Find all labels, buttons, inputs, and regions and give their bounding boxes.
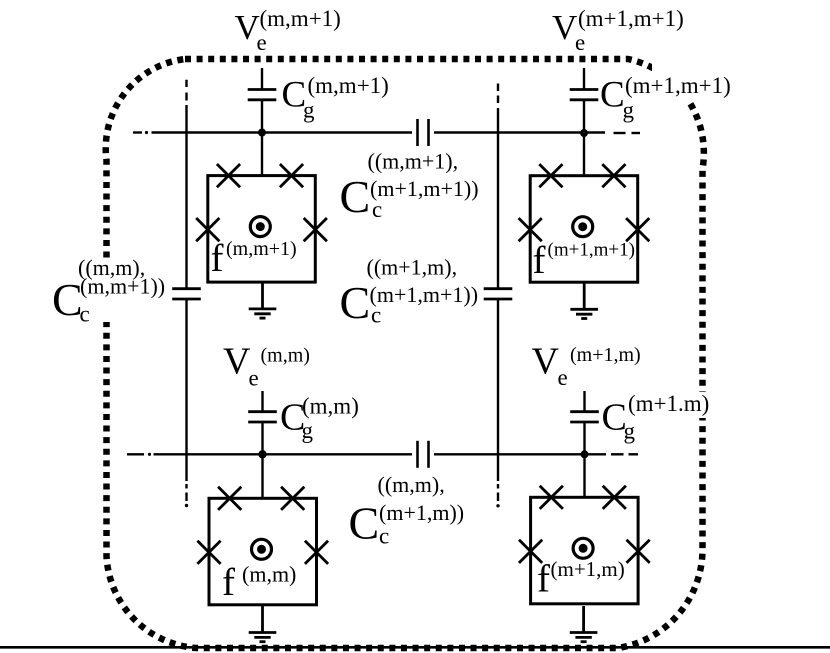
svg-text:g: g [303, 98, 315, 123]
svg-text:(m,m+1)): (m,m+1)) [80, 274, 165, 299]
svg-text:f: f [211, 237, 224, 280]
svg-text:(m+1,m)): (m+1,m)) [379, 500, 464, 525]
svg-text:V: V [552, 8, 577, 47]
svg-text:C: C [600, 75, 625, 116]
svg-text:f: f [222, 561, 235, 604]
svg-text:(m+1,m+1): (m+1,m+1) [625, 73, 731, 98]
svg-text:(m+1,m+1)): (m+1,m+1)) [370, 282, 479, 307]
svg-text:e: e [558, 365, 568, 390]
svg-text:(m+1,m+1)): (m+1,m+1)) [370, 176, 479, 201]
svg-text:(m+1.m): (m+1.m) [628, 391, 709, 416]
svg-text:V: V [223, 341, 251, 383]
svg-text:f: f [533, 239, 546, 282]
svg-text:(m+1,m+1): (m+1,m+1) [578, 6, 684, 31]
svg-text:(m+1,m): (m+1,m) [551, 557, 625, 581]
svg-text:(m,m+1): (m,m+1) [260, 6, 341, 31]
svg-text:((m+1,m),: ((m+1,m), [367, 255, 458, 280]
svg-text:g: g [624, 419, 636, 444]
svg-text:e: e [249, 366, 259, 391]
svg-text:C: C [340, 277, 371, 328]
svg-text:(m,m): (m,m) [242, 562, 296, 587]
svg-text:(m+1,m): (m+1,m) [570, 344, 641, 366]
svg-text:c: c [379, 524, 389, 549]
svg-text:(m,m+1): (m,m+1) [308, 73, 389, 98]
svg-text:e: e [257, 30, 267, 55]
svg-text:C: C [349, 498, 380, 549]
svg-text:(m,m): (m,m) [302, 394, 359, 419]
svg-text:g: g [623, 98, 635, 123]
svg-text:((m,m+1),: ((m,m+1), [368, 149, 459, 174]
svg-text:(m,m): (m,m) [261, 345, 310, 367]
svg-text:(m+1,m+1): (m+1,m+1) [548, 240, 635, 261]
svg-text:e: e [575, 30, 585, 55]
svg-text:c: c [80, 302, 90, 327]
svg-text:((m,m),: ((m,m), [378, 472, 445, 497]
svg-text:(m,m+1): (m,m+1) [226, 238, 297, 260]
svg-text:g: g [302, 418, 314, 443]
svg-text:C: C [340, 171, 371, 222]
svg-text:V: V [532, 341, 560, 383]
svg-text:C: C [52, 274, 83, 325]
svg-text:f: f [537, 558, 550, 601]
